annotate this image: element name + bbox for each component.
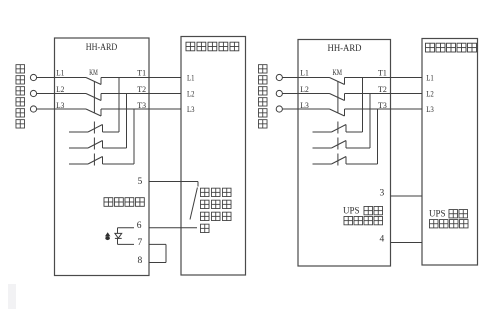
contactor KM contact row2 (right) — [298, 94, 345, 101]
KM mechanical linkage — [93, 81, 95, 113]
wire motor to L3 input (right) — [282, 108, 298, 110]
svg-text:L2: L2 — [300, 85, 309, 94]
wire bypass row5 to T2 (right) — [346, 94, 370, 149]
svg-text:6: 6 — [137, 221, 142, 231]
svg-text:HH-ARD: HH-ARD — [328, 43, 362, 53]
contactor KM contact row2 — [55, 94, 102, 101]
wire motor to L2 input — [37, 93, 55, 95]
wire pin 6 — [149, 227, 197, 229]
wire motor to L3 input — [37, 108, 55, 110]
bypass contact row6 — [69, 154, 103, 166]
wire T2 row (right) — [345, 93, 423, 95]
wire T3 row (right) — [345, 108, 423, 110]
svg-text:8: 8 — [138, 256, 143, 266]
svg-text:L2: L2 — [426, 89, 434, 98]
svg-text:L1: L1 — [187, 73, 195, 82]
diode D1 — [115, 233, 122, 238]
svg-text:L1: L1 — [56, 69, 64, 78]
svg-text:L2: L2 — [56, 85, 64, 94]
svg-text:T1: T1 — [378, 69, 387, 78]
svg-text:T3: T3 — [137, 101, 146, 110]
wire bypass row6 to T3 (right) — [346, 109, 378, 164]
HH-ARD box U1 — [55, 38, 150, 276]
contactor KM contact row3 (right) — [298, 109, 345, 116]
wire T1 row (right) — [345, 77, 423, 79]
label 停机信号 — [104, 198, 144, 207]
contactor KM contact row3 — [55, 109, 102, 116]
svg-text:UPS: UPS — [429, 209, 446, 219]
wire bypass row4 to T1 — [103, 78, 120, 133]
wire T2 row — [101, 93, 181, 95]
motor terminal circle L1 (right) — [276, 74, 282, 80]
motor terminal circle L2 (left) — [30, 90, 36, 96]
wire bypass row6 to T3 — [103, 109, 135, 164]
label UPS应急 运行指令 — [343, 206, 383, 225]
wire motor to L2 input (right) — [282, 93, 298, 95]
svg-text:4: 4 — [380, 235, 385, 245]
svg-text:UPS: UPS — [343, 206, 360, 216]
elevator control cabinet box (right diagram) — [422, 39, 478, 266]
svg-text:KM: KM — [333, 68, 343, 77]
bypass contact row4 (right) — [313, 122, 347, 134]
motor terminal circle L3 (right) — [276, 106, 282, 112]
svg-text:T2: T2 — [137, 85, 146, 94]
svg-text:7: 7 — [138, 238, 143, 248]
label UPS应急 运行输入 — [429, 209, 468, 228]
wire pin 4 — [391, 242, 423, 244]
wire T1 row — [101, 77, 181, 79]
contactor KM contact row1 — [55, 78, 102, 85]
svg-text:T3: T3 — [378, 101, 387, 110]
label 电梯控制柜 (left) — [186, 42, 239, 51]
svg-text:3: 3 — [380, 189, 385, 199]
label 电梯控制柜 (right) — [426, 43, 477, 52]
wire motor to L1 input — [37, 77, 55, 79]
KM mechanical linkage (right) — [337, 81, 339, 113]
label 门锁继电器空余的触点 — [200, 188, 231, 232]
svg-text:5: 5 — [138, 177, 143, 187]
motor terminal circle L1 (left) — [30, 74, 36, 80]
wire pin 5 — [149, 182, 198, 187]
label 三相动力电机 (left, vertical) — [16, 65, 25, 128]
svg-text:L1: L1 — [300, 69, 309, 78]
label 三相动力电机 (right, vertical) — [258, 65, 267, 128]
svg-text:HH-ARD: HH-ARD — [86, 42, 118, 52]
svg-text:L3: L3 — [187, 105, 195, 114]
svg-text:L2: L2 — [187, 89, 195, 98]
wire bypass row4 to T1 (right) — [346, 78, 363, 133]
contactor KM contact row1 (right) — [298, 78, 345, 85]
bypass contact row5 — [69, 138, 103, 150]
wire bypass row5 to T2 — [103, 94, 127, 149]
faint watermark — [8, 284, 16, 309]
opto arrow marker — [105, 232, 111, 240]
svg-text:T2: T2 — [378, 85, 387, 94]
wire pin 8 — [149, 262, 166, 264]
wire T3 row — [101, 108, 181, 110]
jumper 7-8 — [165, 244, 167, 262]
bypass contact row4 — [69, 122, 103, 134]
HH-ARD box U2 — [298, 40, 391, 267]
svg-text:T1: T1 — [137, 69, 146, 78]
svg-text:L3: L3 — [426, 105, 434, 114]
bypass contact row6 (right) — [313, 154, 347, 166]
bypass contact row5 (right) — [313, 138, 347, 150]
svg-text:L1: L1 — [426, 73, 434, 82]
motor terminal circle L2 (right) — [276, 90, 282, 96]
motor terminal circle L3 (left) — [30, 106, 36, 112]
internal stop-signal branch with diode D1 — [118, 228, 135, 245]
wire pin 7 — [149, 243, 166, 245]
elevator control cabinet box (left diagram) — [181, 37, 246, 276]
door lock relay contact blade — [190, 188, 197, 220]
wire pin 3 — [391, 195, 423, 197]
wire motor to L1 input (right) — [282, 77, 298, 79]
svg-text:KM: KM — [89, 68, 98, 77]
